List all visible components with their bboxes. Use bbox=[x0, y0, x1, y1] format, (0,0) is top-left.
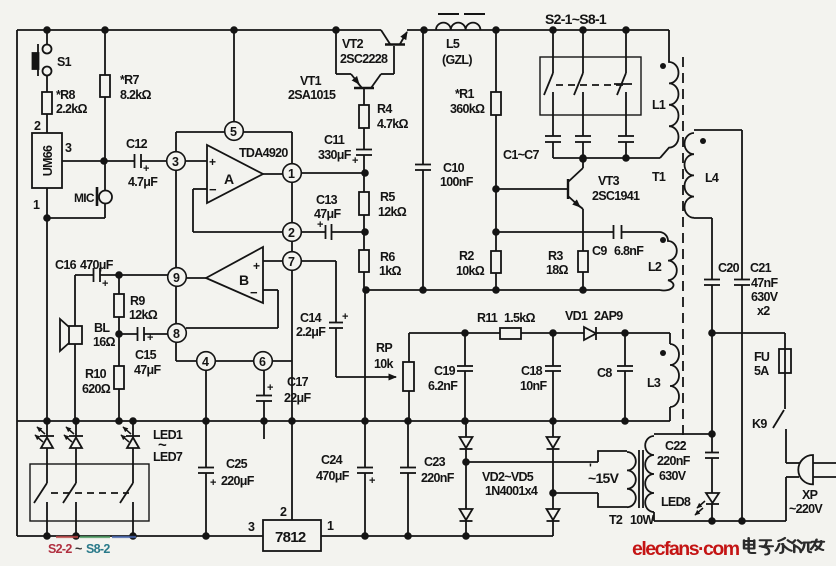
capacitor C12 bbox=[104, 154, 167, 168]
svg-text:VT3: VT3 bbox=[598, 174, 620, 188]
svg-text:C25: C25 bbox=[226, 457, 248, 471]
resistor R5 bbox=[359, 173, 369, 250]
wire C1-C7 bottom bus bbox=[553, 157, 660, 159]
node L1 phase dot bbox=[660, 63, 666, 69]
resistor R6 bbox=[359, 250, 369, 290]
svg-text:47nF: 47nF bbox=[751, 276, 778, 290]
svg-text:R4: R4 bbox=[377, 102, 392, 116]
svg-text:100nF: 100nF bbox=[440, 175, 474, 189]
transistor VT2 bbox=[381, 30, 407, 74]
svg-text:R11: R11 bbox=[477, 311, 498, 325]
wire rail y421 bbox=[17, 420, 670, 422]
transistor VT1 bbox=[336, 30, 394, 105]
resistor R9 bbox=[114, 275, 124, 334]
svg-text:+: + bbox=[317, 219, 323, 231]
svg-text:XP: XP bbox=[802, 488, 818, 502]
transformer T1 core dashed bbox=[682, 57, 684, 443]
plug XP bbox=[798, 455, 836, 484]
switch S5-1 bbox=[574, 30, 583, 136]
svg-text:L4: L4 bbox=[705, 171, 719, 185]
svg-text:C24: C24 bbox=[321, 453, 343, 467]
resistor R11 bbox=[500, 328, 521, 339]
svg-text:+: + bbox=[267, 382, 273, 394]
inductor L1 bbox=[660, 30, 679, 158]
svg-text:3: 3 bbox=[65, 141, 72, 155]
svg-text:~15V: ~15V bbox=[588, 470, 620, 486]
svg-text:+: + bbox=[143, 163, 149, 175]
svg-text:C11: C11 bbox=[324, 133, 345, 147]
svg-text:5: 5 bbox=[230, 125, 237, 139]
svg-text:LED8: LED8 bbox=[661, 495, 691, 509]
svg-text:630V: 630V bbox=[751, 290, 779, 304]
regulator 7812 bbox=[263, 421, 321, 551]
capacitor C11 bbox=[356, 150, 372, 174]
node dots misc bbox=[43, 154, 746, 525]
wire bottom rail left of 7812 bbox=[17, 535, 263, 537]
svg-text:VT2: VT2 bbox=[342, 37, 364, 51]
capacitor C4 bbox=[575, 136, 591, 158]
capacitor C10 bbox=[415, 30, 431, 290]
wire switch gang dashed link bbox=[556, 84, 623, 86]
node dots bottom rail bbox=[43, 532, 470, 540]
switch S8-2 bbox=[120, 483, 133, 536]
fuse FU bbox=[779, 349, 791, 373]
svg-text:R6: R6 bbox=[380, 250, 395, 264]
svg-text:7812: 7812 bbox=[275, 529, 306, 546]
svg-text:A: A bbox=[224, 171, 234, 187]
svg-text:K9: K9 bbox=[752, 417, 767, 431]
svg-text:2: 2 bbox=[280, 505, 287, 519]
capacitor C23 bbox=[400, 421, 416, 536]
svg-text:C17: C17 bbox=[287, 375, 309, 389]
resistor R7 bbox=[100, 30, 110, 161]
svg-text:BL: BL bbox=[94, 321, 110, 335]
svg-text:1: 1 bbox=[288, 167, 295, 181]
svg-text:FU: FU bbox=[754, 350, 770, 364]
svg-text:LED7: LED7 bbox=[153, 450, 183, 464]
inductor L3 bbox=[670, 333, 679, 421]
diode VD5 bbox=[547, 493, 560, 536]
node L4 phase dot bbox=[700, 138, 706, 144]
svg-text:C12: C12 bbox=[126, 137, 148, 151]
svg-text:C21: C21 bbox=[750, 261, 772, 275]
svg-text:C20: C20 bbox=[718, 261, 740, 275]
svg-text:+: + bbox=[342, 311, 348, 323]
inductor L5 bbox=[436, 14, 485, 30]
switch S5-2 bbox=[63, 483, 76, 536]
svg-text:L3: L3 bbox=[647, 376, 661, 390]
capacitor C7 bbox=[618, 136, 634, 158]
svg-text:470μF: 470μF bbox=[316, 469, 350, 483]
svg-text:+: + bbox=[352, 155, 358, 167]
op-amp B bbox=[186, 247, 283, 328]
resistor R2 bbox=[491, 232, 501, 290]
svg-text:C15: C15 bbox=[135, 348, 157, 362]
capacitor C19 bbox=[457, 333, 473, 421]
svg-text:12kΩ: 12kΩ bbox=[129, 308, 158, 322]
wire UM66 pin1 down bbox=[46, 188, 48, 421]
svg-text:VD1: VD1 bbox=[565, 309, 588, 323]
svg-text:+: + bbox=[210, 477, 216, 489]
svg-text:~220V: ~220V bbox=[789, 502, 823, 516]
svg-text:*R8: *R8 bbox=[56, 88, 75, 102]
transformer T2 primary bbox=[598, 451, 636, 507]
resistor R10 bbox=[114, 334, 124, 421]
diode VD4 bbox=[460, 462, 473, 536]
capacitor C21 bbox=[734, 130, 750, 521]
svg-text:−: − bbox=[250, 285, 258, 300]
svg-text:C18: C18 bbox=[521, 364, 543, 378]
svg-text:~: ~ bbox=[75, 542, 82, 556]
svg-text:2: 2 bbox=[288, 226, 295, 240]
transistor VT3 bbox=[496, 159, 583, 251]
svg-text:UM66: UM66 bbox=[41, 145, 55, 176]
svg-text:360kΩ: 360kΩ bbox=[450, 102, 485, 116]
svg-text:220nF: 220nF bbox=[657, 454, 691, 468]
svg-text:10k: 10k bbox=[374, 357, 394, 371]
svg-text:TDA4920: TDA4920 bbox=[239, 146, 288, 160]
svg-text:10kΩ: 10kΩ bbox=[456, 264, 485, 278]
wire left border bbox=[16, 30, 18, 536]
svg-text:2.2μF: 2.2μF bbox=[296, 325, 326, 339]
diode VD3 bbox=[547, 421, 560, 493]
svg-text:C13: C13 bbox=[316, 193, 338, 207]
svg-text:L1: L1 bbox=[652, 98, 666, 112]
svg-text:16Ω: 16Ω bbox=[93, 335, 116, 349]
wire bridge to T2 bottom bbox=[553, 492, 598, 494]
svg-text:4.7μF: 4.7μF bbox=[128, 175, 158, 189]
LED1 bbox=[35, 421, 54, 483]
wire stub below C17 node bbox=[263, 421, 265, 439]
wire colored scan artifacts on bottom rail bbox=[56, 536, 136, 538]
LED7 bbox=[121, 421, 140, 483]
svg-text:10W: 10W bbox=[630, 513, 655, 527]
svg-text:1kΩ: 1kΩ bbox=[379, 264, 402, 278]
capacitor C16 bbox=[75, 268, 168, 282]
svg-text:C9: C9 bbox=[592, 244, 607, 258]
svg-text:+: + bbox=[147, 332, 153, 344]
svg-text:*R1: *R1 bbox=[455, 87, 474, 101]
svg-text:+: + bbox=[209, 155, 216, 169]
capacitor C8 bbox=[617, 333, 633, 421]
capacitor C17 bbox=[256, 370, 272, 421]
svg-text:2: 2 bbox=[34, 119, 41, 133]
svg-text:VT1: VT1 bbox=[300, 74, 322, 88]
transformer T2 secondary winding bbox=[645, 434, 712, 521]
svg-text:C23: C23 bbox=[424, 455, 446, 469]
wire pin1 to C11 node bbox=[301, 172, 364, 174]
svg-text:L2: L2 bbox=[648, 260, 662, 274]
svg-text:C1~C7: C1~C7 bbox=[503, 148, 540, 162]
svg-text:L5: L5 bbox=[446, 37, 460, 51]
capacitor C15 bbox=[119, 327, 168, 341]
transformer T2 core bbox=[639, 450, 643, 508]
wire top rail right segment bbox=[407, 29, 669, 31]
svg-text:2.2kΩ: 2.2kΩ bbox=[56, 102, 88, 116]
svg-text:C8: C8 bbox=[597, 366, 612, 380]
switch bank S2-1 to S8-1 box bbox=[540, 57, 641, 115]
IC U1 UM66 bbox=[32, 133, 62, 188]
node dots top rail bbox=[43, 26, 630, 34]
IC U2 TDA4920 frame bbox=[176, 30, 292, 421]
diode VD2 bbox=[460, 421, 473, 462]
switch bank S2-2 to S8-2 box bbox=[30, 464, 149, 521]
svg-text:+: + bbox=[369, 475, 375, 487]
switch S2-2 bbox=[34, 483, 47, 536]
svg-text:B: B bbox=[239, 272, 249, 288]
svg-text:T2: T2 bbox=[609, 513, 623, 527]
svg-text:6.2nF: 6.2nF bbox=[428, 379, 458, 393]
wire R11 row bbox=[409, 332, 670, 334]
svg-text:330μF: 330μF bbox=[318, 148, 352, 162]
speaker BL bbox=[60, 275, 82, 421]
capacitor C20 bbox=[704, 218, 720, 434]
svg-text:R10: R10 bbox=[85, 367, 107, 381]
svg-text:+: + bbox=[102, 278, 108, 290]
svg-text:630V: 630V bbox=[659, 469, 687, 483]
svg-text:2AP9: 2AP9 bbox=[594, 309, 623, 323]
svg-text:R9: R9 bbox=[130, 294, 145, 308]
svg-text:VD2~VD5: VD2~VD5 bbox=[482, 470, 534, 484]
svg-text:1.5kΩ: 1.5kΩ bbox=[504, 311, 536, 325]
microphone MIC bbox=[47, 161, 112, 218]
wire K9 to plug top bbox=[786, 429, 800, 463]
LED2 bbox=[64, 421, 83, 483]
svg-text:x2: x2 bbox=[757, 304, 770, 318]
svg-text:8: 8 bbox=[173, 327, 180, 341]
switch S1 bbox=[33, 30, 52, 92]
node dots mid rail bbox=[362, 286, 587, 294]
LED8 bbox=[695, 493, 719, 521]
svg-text:R2: R2 bbox=[459, 249, 474, 263]
svg-text:R3: R3 bbox=[548, 249, 563, 263]
capacitor C22 bbox=[705, 434, 719, 493]
logo Chinese characters dian zi fa shao you bbox=[744, 538, 824, 555]
svg-text:7: 7 bbox=[288, 255, 295, 269]
svg-text:C10: C10 bbox=[443, 161, 465, 175]
svg-text:4: 4 bbox=[202, 355, 209, 369]
resistor R4 bbox=[359, 105, 369, 149]
capacitor C13 bbox=[301, 224, 365, 240]
svg-text:6.8nF: 6.8nF bbox=[614, 244, 644, 258]
svg-text:2SC2228: 2SC2228 bbox=[340, 52, 388, 66]
op-amp A bbox=[185, 145, 283, 232]
capacitor C9 bbox=[496, 225, 659, 239]
wire top rail left segment bbox=[17, 29, 381, 31]
wire C20 node to fuse bbox=[712, 333, 785, 409]
svg-text:470μF: 470μF bbox=[80, 258, 114, 272]
node L2 phase dot bbox=[660, 237, 666, 243]
svg-text:C14: C14 bbox=[300, 311, 322, 325]
resistor R1 bbox=[491, 30, 501, 232]
wire bottom rail right of 7812 bbox=[321, 535, 553, 537]
diode VD1 bbox=[584, 327, 596, 340]
svg-text:3: 3 bbox=[172, 155, 179, 169]
svg-text:47μF: 47μF bbox=[134, 363, 161, 377]
wire UM66 pin3 to node bbox=[62, 160, 104, 162]
svg-text:C19: C19 bbox=[434, 364, 456, 378]
svg-text:1: 1 bbox=[327, 519, 334, 533]
svg-text:S8-2: S8-2 bbox=[86, 542, 110, 556]
svg-text:1N4001x4: 1N4001x4 bbox=[485, 484, 538, 498]
potentiometer RP bbox=[403, 333, 414, 421]
svg-text:4.7kΩ: 4.7kΩ bbox=[377, 117, 409, 131]
switch S8-1 bbox=[614, 30, 632, 136]
svg-text:22μF: 22μF bbox=[284, 391, 311, 405]
svg-text:RP: RP bbox=[376, 341, 392, 355]
svg-text:9: 9 bbox=[173, 271, 180, 285]
wire mid rail y290 bbox=[366, 289, 660, 291]
svg-text:6: 6 bbox=[259, 355, 266, 369]
wire bridge to T2 top bbox=[466, 461, 598, 463]
svg-text:5A: 5A bbox=[754, 364, 769, 378]
inductor L2 bbox=[659, 232, 677, 291]
svg-text:12kΩ: 12kΩ bbox=[378, 205, 407, 219]
svg-text:220μF: 220μF bbox=[221, 474, 255, 488]
svg-text:220nF: 220nF bbox=[421, 471, 455, 485]
svg-text:C22: C22 bbox=[665, 439, 687, 453]
wire plug bottom to mains rail bbox=[654, 477, 799, 521]
switch K9 bbox=[773, 410, 784, 428]
svg-text:T1: T1 bbox=[652, 170, 666, 184]
svg-text:*R7: *R7 bbox=[120, 73, 139, 87]
svg-text:MIC: MIC bbox=[74, 191, 95, 205]
svg-text:10nF: 10nF bbox=[520, 379, 547, 393]
wire switch gang dashed link 2 bbox=[51, 492, 129, 494]
IC TDA4920 pin circles bbox=[167, 122, 302, 371]
resistor R3 bbox=[578, 251, 588, 290]
svg-text:1: 1 bbox=[33, 198, 40, 212]
node dots rail y421 bbox=[43, 417, 629, 425]
resistor R8 bbox=[42, 92, 52, 133]
node L3 phase dot bbox=[660, 350, 666, 356]
svg-text:2SA1015: 2SA1015 bbox=[288, 88, 336, 102]
capacitor C14 bbox=[301, 261, 396, 377]
svg-text:−: − bbox=[209, 182, 217, 197]
svg-text:8.2kΩ: 8.2kΩ bbox=[120, 88, 152, 102]
svg-text:620Ω: 620Ω bbox=[82, 382, 111, 396]
capacitor C25 bbox=[198, 421, 214, 536]
svg-text:R5: R5 bbox=[380, 190, 395, 204]
svg-text:3: 3 bbox=[248, 520, 255, 534]
capacitor C24 bbox=[357, 421, 373, 536]
svg-text:18Ω: 18Ω bbox=[546, 263, 569, 277]
capacitor C1 bbox=[545, 136, 561, 158]
wire R6 column down bbox=[364, 290, 366, 421]
svg-text:C16: C16 bbox=[55, 258, 77, 272]
inductor L4 bbox=[685, 130, 742, 218]
svg-text:(GZL): (GZL) bbox=[442, 53, 472, 67]
switch S2-1 bbox=[544, 30, 553, 136]
svg-text:elecfans·com: elecfans·com bbox=[632, 538, 740, 560]
svg-text:S2-2: S2-2 bbox=[48, 542, 72, 556]
svg-text:2SC1941: 2SC1941 bbox=[592, 189, 640, 203]
svg-text:S2-1~S8-1: S2-1~S8-1 bbox=[545, 11, 607, 27]
svg-text:+: + bbox=[253, 259, 260, 273]
svg-text:S1: S1 bbox=[57, 55, 72, 69]
capacitor C18 bbox=[545, 333, 561, 421]
